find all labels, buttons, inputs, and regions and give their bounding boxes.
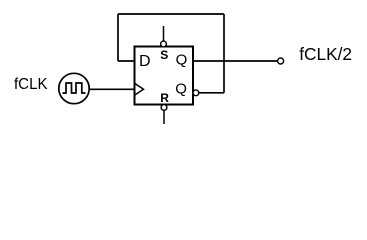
wire clock source to CLK pin [89, 88, 134, 90]
D flip-flop body [135, 47, 194, 105]
R input stub wire [163, 110, 165, 124]
wire feedback to D input [118, 60, 135, 62]
wire Qbar bubble to feedback riser [199, 92, 224, 94]
wire feedback riser (vertical) [223, 14, 225, 93]
S input bubble [161, 41, 167, 47]
R input bubble [161, 105, 167, 111]
wire Q output to terminal [194, 60, 278, 62]
clock source [59, 73, 89, 103]
svg-text:R: R [160, 91, 169, 105]
svg-text:S: S [160, 48, 168, 62]
wire feedback top run [118, 13, 224, 15]
svg-text:fCLK: fCLK [14, 76, 48, 93]
svg-text:fCLK/2: fCLK/2 [299, 44, 352, 64]
clock input edge triangle [135, 83, 144, 95]
svg-text:Q: Q [176, 52, 188, 69]
output terminal (open circle) [278, 58, 284, 64]
S input stub wire [163, 26, 165, 41]
svg-text:Q: Q [175, 81, 187, 98]
wire feedback left drop [117, 14, 119, 61]
Qbar output bubble [193, 90, 199, 96]
svg-text:D: D [139, 53, 151, 70]
